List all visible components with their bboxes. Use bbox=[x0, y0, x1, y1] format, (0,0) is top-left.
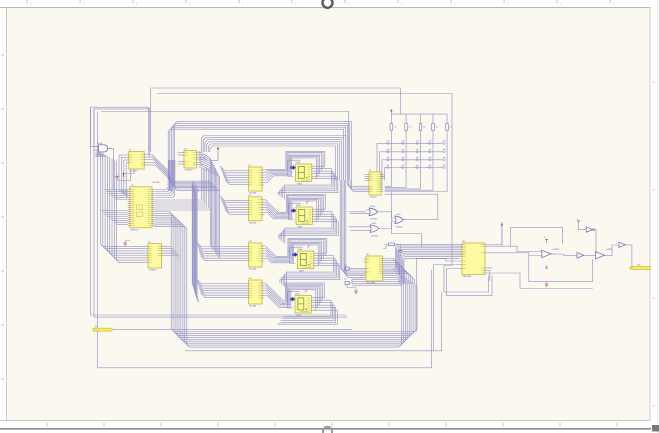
push button SW17 bbox=[401, 165, 407, 172]
svg-text:U13: U13 bbox=[462, 241, 465, 243]
wire bus, P0 band upper bbox=[168, 121, 351, 180]
power -V op-amp bbox=[545, 265, 548, 268]
wire, U2 connections bbox=[117, 153, 173, 197]
svg-text:8: 8 bbox=[420, 169, 421, 171]
push button SW12 bbox=[401, 157, 407, 164]
wire bus, left outer routing bbox=[91, 107, 432, 368]
op-amp U14:A bbox=[542, 249, 560, 258]
wire, feedback lower bbox=[529, 256, 593, 284]
svg-text:U8: U8 bbox=[249, 165, 251, 167]
buffer U17 bbox=[619, 242, 626, 247]
svg-text:U7:A: U7:A bbox=[98, 142, 103, 145]
bcd decoder U11 bbox=[246, 278, 264, 308]
wire bus, P0 band lower bbox=[202, 136, 346, 181]
svg-text:LM358: LM358 bbox=[607, 249, 614, 251]
wire bus, MCU P0 to latch bbox=[154, 152, 210, 210]
wire, gate connections bbox=[91, 107, 114, 190]
svg-text:10k: 10k bbox=[423, 127, 426, 129]
svg-text:U10: U10 bbox=[249, 241, 252, 243]
svg-text:10k: 10k bbox=[394, 127, 397, 129]
capacitor C3 bbox=[398, 247, 402, 257]
push button SW8 bbox=[415, 149, 421, 156]
svg-text:10k: 10k bbox=[435, 127, 438, 129]
svg-text:U6:A: U6:A bbox=[371, 205, 376, 208]
push button SW14 bbox=[428, 157, 434, 164]
svg-text:U2: U2 bbox=[129, 150, 131, 152]
svg-text:U1: U1 bbox=[131, 185, 133, 187]
resistor R3 bbox=[419, 124, 425, 131]
wire, to output bbox=[625, 245, 632, 268]
svg-text:1: 1 bbox=[391, 145, 392, 147]
push button SW11 bbox=[386, 157, 392, 164]
wire bus, decoder 3-4 input taps bbox=[197, 242, 247, 298]
svg-text:74LS48: 74LS48 bbox=[249, 269, 257, 271]
wire bus, loops around DS4 bbox=[285, 283, 324, 310]
svg-text:5: 5 bbox=[447, 162, 448, 164]
push button SW19 bbox=[428, 165, 434, 172]
svg-text:9: 9 bbox=[433, 154, 434, 156]
ground bbox=[115, 175, 119, 180]
svg-text:LM358: LM358 bbox=[553, 249, 560, 251]
octal buffer U4 bbox=[146, 242, 164, 272]
wire bus, chain from DS2 bbox=[278, 212, 338, 244]
power +V inverter bbox=[577, 218, 581, 224]
svg-text:4: 4 bbox=[433, 162, 434, 164]
wire bus, chain from DS4 bbox=[277, 300, 337, 324]
svg-text:ADC0804: ADC0804 bbox=[367, 282, 377, 285]
power +5V keypad bbox=[390, 109, 393, 114]
wire, keypad columns to encoder bbox=[385, 178, 447, 192]
node junction bbox=[501, 224, 503, 247]
svg-text:U6:C: U6:C bbox=[396, 214, 401, 216]
svg-text:0: 0 bbox=[447, 154, 448, 156]
push button SW13 bbox=[415, 157, 421, 164]
svg-text:U9: U9 bbox=[249, 195, 251, 197]
push button SW6 bbox=[386, 149, 392, 156]
svg-text:74LS373: 74LS373 bbox=[185, 170, 194, 172]
svg-text:AT89C52: AT89C52 bbox=[131, 229, 140, 232]
inverter U16 bbox=[586, 227, 594, 232]
svg-text:5: 5 bbox=[447, 145, 448, 147]
resistor R6 bbox=[389, 243, 395, 246]
wire, keypad column rail bbox=[391, 114, 447, 123]
wire, keypad rows bbox=[377, 143, 442, 180]
and gate U7:A bbox=[95, 142, 111, 156]
op-amp U14:B bbox=[595, 249, 613, 259]
svg-text:U5: U5 bbox=[369, 170, 371, 172]
wire bus, loops around DS1 bbox=[286, 151, 325, 178]
push button SW1 bbox=[386, 140, 392, 147]
resistor R5 bbox=[446, 124, 452, 131]
push button SW4 bbox=[428, 140, 434, 147]
wire, U3 connections bbox=[178, 153, 207, 165]
push button SW9 bbox=[428, 149, 434, 156]
ground near U4 bbox=[123, 241, 130, 246]
svg-text:U4: U4 bbox=[148, 242, 150, 244]
capacitor C2 bbox=[344, 279, 349, 285]
wire bus, ADC data out bbox=[385, 259, 415, 285]
wire, U15 to U14B bbox=[586, 245, 619, 255]
svg-text:DIS1: DIS1 bbox=[296, 162, 300, 164]
wire, J1 to bus bbox=[114, 329, 353, 331]
counter U2 bbox=[127, 150, 147, 173]
wire bus, MCU to U4 bbox=[96, 153, 146, 262]
latch U3 bbox=[182, 149, 199, 172]
svg-text:0: 0 bbox=[447, 169, 448, 171]
svg-text:74C922: 74C922 bbox=[370, 197, 378, 199]
svg-text:4: 4 bbox=[433, 145, 434, 147]
svg-text:74LS48: 74LS48 bbox=[249, 222, 257, 224]
wire, ADC clock network bbox=[383, 192, 422, 249]
svg-text:10k: 10k bbox=[408, 127, 411, 129]
wire, inverter connections bbox=[578, 224, 596, 253]
svg-text:U3: U3 bbox=[184, 149, 186, 151]
wire bus, decoder to DS4 bbox=[264, 283, 291, 307]
wire, gate connections bbox=[349, 194, 438, 230]
bcd decoder U10 bbox=[246, 241, 264, 271]
svg-text:DIS4: DIS4 bbox=[295, 294, 299, 296]
push button SW5 bbox=[442, 140, 448, 147]
push button SW20 bbox=[442, 165, 448, 172]
svg-text:6: 6 bbox=[391, 154, 392, 156]
dac U13 bbox=[460, 241, 487, 278]
wire, bottom single net bbox=[185, 292, 442, 351]
capacitor C1 bbox=[344, 265, 349, 271]
svg-text:9: 9 bbox=[433, 169, 434, 171]
push button SW2 bbox=[401, 140, 407, 147]
wire, U14 to U15 bbox=[556, 254, 577, 255]
svg-text:2: 2 bbox=[406, 145, 407, 147]
seven segment display DS2 bbox=[288, 201, 315, 229]
svg-text:74LS32: 74LS32 bbox=[371, 235, 379, 237]
power +5V bbox=[122, 172, 124, 177]
push button SW16 bbox=[386, 165, 392, 172]
svg-text:74LS32: 74LS32 bbox=[370, 219, 378, 221]
wire bus, chain from DS1 bbox=[278, 169, 338, 200]
ground right section bbox=[545, 284, 549, 287]
output terminal J2 bbox=[629, 264, 650, 269]
svg-text:1: 1 bbox=[391, 162, 392, 164]
power +V op-amp bbox=[544, 236, 548, 243]
wire bus, chain from DS3 bbox=[280, 256, 340, 288]
wire, ADC analog input bbox=[347, 269, 364, 291]
wire bus, lower band to DAC bbox=[352, 253, 460, 285]
resistor R2 bbox=[405, 124, 411, 131]
resistor R4 bbox=[432, 124, 438, 131]
or gate U6:A bbox=[366, 205, 378, 221]
push button SW7 bbox=[401, 149, 407, 156]
wire, DAC connections bbox=[417, 222, 593, 351]
svg-text:DIS2: DIS2 bbox=[296, 205, 300, 207]
svg-text:2: 2 bbox=[406, 162, 407, 164]
svg-text:10k: 10k bbox=[449, 127, 452, 129]
svg-text:DIS3: DIS3 bbox=[298, 249, 302, 251]
bcd decoder U8 bbox=[246, 165, 264, 195]
svg-text:6: 6 bbox=[391, 169, 392, 171]
seven segment display DS3 bbox=[290, 245, 317, 273]
wire, encoder nc pins bbox=[365, 175, 368, 181]
resistor R1 bbox=[390, 124, 396, 131]
wire bus, branch to decoders 3-4 bbox=[169, 160, 220, 302]
svg-text:74LS48: 74LS48 bbox=[249, 306, 257, 308]
adc U12 bbox=[364, 254, 385, 285]
wire bus, MCU P1 band via bottom bbox=[154, 212, 417, 348]
svg-text:8: 8 bbox=[420, 154, 421, 156]
push button SW10 bbox=[442, 149, 448, 156]
svg-text:3: 3 bbox=[420, 145, 421, 147]
wire bus, decoder to DS2 bbox=[264, 200, 292, 219]
wire bus, decoder 1-2 input taps bbox=[220, 166, 247, 214]
svg-text:7: 7 bbox=[406, 154, 407, 156]
ground near ADC bbox=[354, 291, 358, 294]
seven segment display DS4 bbox=[287, 289, 314, 317]
power terminal near U3 bbox=[210, 148, 219, 161]
buffer U15 bbox=[577, 253, 586, 259]
svg-text:U6:B: U6:B bbox=[372, 223, 377, 225]
wire bus, BCD bus to decoders bbox=[199, 152, 220, 259]
svg-text:7: 7 bbox=[406, 169, 407, 171]
input terminal J1 bbox=[93, 326, 113, 331]
microcontroller U1 bbox=[128, 181, 160, 232]
seven segment display DS1 bbox=[288, 160, 315, 185]
wire, feedback upper bbox=[511, 227, 563, 246]
wire bus, loops around DS2 bbox=[286, 194, 325, 221]
svg-text:3: 3 bbox=[420, 162, 421, 164]
bcd decoder U9 bbox=[246, 195, 264, 225]
wire bus, loops around DS3 bbox=[288, 238, 327, 265]
keypad encoder U5 bbox=[367, 170, 383, 199]
or gate U6:C bbox=[395, 214, 404, 229]
wire bus, decoder to DS3 bbox=[264, 246, 293, 263]
svg-text:DAC0808: DAC0808 bbox=[463, 275, 473, 278]
wire, top horizontal nets bbox=[101, 88, 489, 292]
svg-text:74LS244: 74LS244 bbox=[149, 270, 158, 272]
svg-text:CRYSTAL: CRYSTAL bbox=[152, 181, 160, 184]
push button SW15 bbox=[442, 157, 448, 164]
svg-text:74LS32: 74LS32 bbox=[396, 227, 404, 229]
svg-text:OUT: OUT bbox=[637, 264, 641, 266]
svg-text:U12: U12 bbox=[366, 254, 369, 256]
push button SW18 bbox=[415, 165, 421, 172]
wire, U4 outputs bbox=[164, 246, 179, 259]
wire bus, vertical bundle to DAC and keypad encoder bbox=[340, 180, 460, 278]
wire bus, decoder to DS1 bbox=[264, 169, 291, 182]
svg-text:U11: U11 bbox=[249, 278, 252, 280]
push button SW3 bbox=[415, 140, 421, 147]
or gate U6:B bbox=[367, 223, 379, 237]
